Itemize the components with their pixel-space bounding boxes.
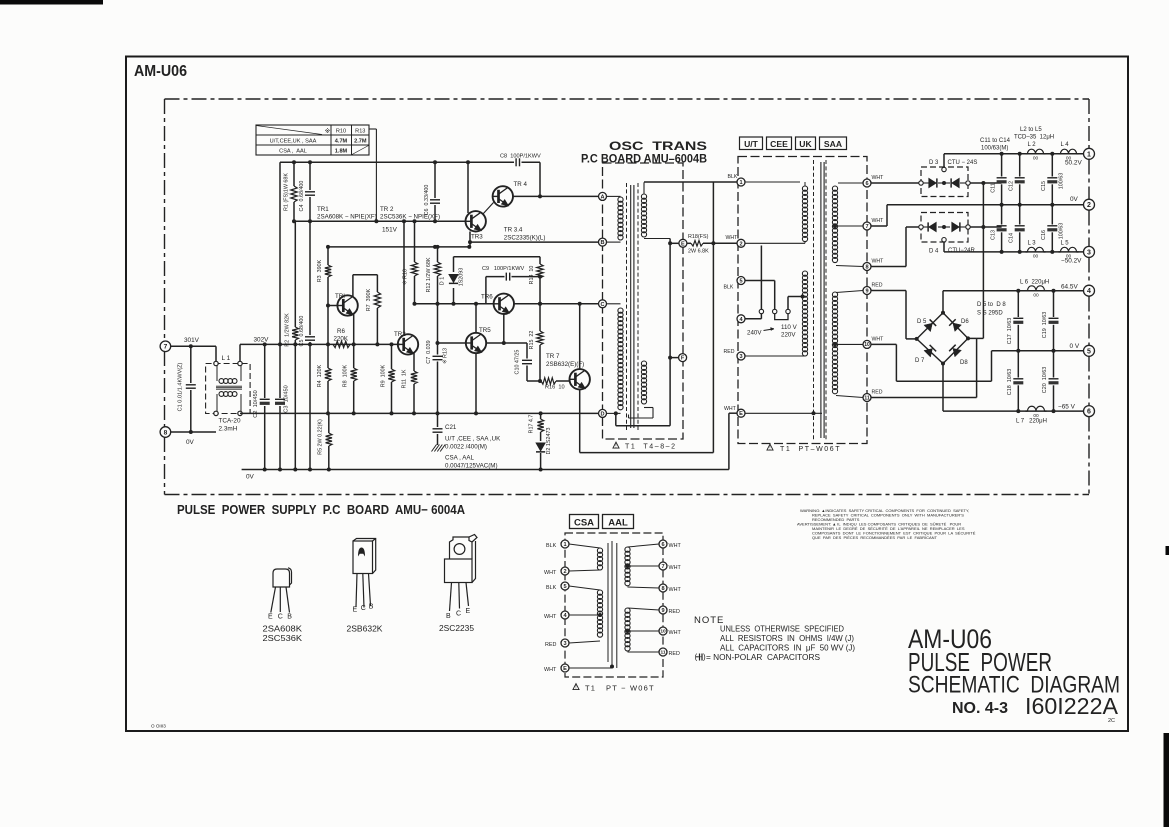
transistor package 2SC2235 TO-220 — [445, 535, 478, 612]
PT terminal 5 — [737, 277, 745, 285]
inductor L4 — [1061, 149, 1077, 154]
transistor TR5 — [466, 333, 486, 353]
svg-text:T1 PT − W06T: T1 PT − W06T — [585, 684, 655, 693]
PT secondary winding upper — [832, 186, 837, 263]
svg-text:R14 10: R14 10 — [529, 266, 535, 285]
wire terminal 9 to bridge — [871, 290, 906, 292]
svg-text:WHT: WHT — [872, 175, 885, 181]
label T1 PT-W06T bottom — [573, 684, 579, 690]
svg-text:R9 100K: R9 100K — [381, 364, 387, 387]
svg-text:WHT: WHT — [544, 570, 557, 576]
svg-text:QUE PAR DES PIÈCES RECOMMA: QUE PAR DES PIÈCES RECOMMANDÉES PAR LE F… — [812, 535, 938, 540]
variant boxes CSA AAL — [570, 515, 599, 529]
resistor R18 — [687, 242, 691, 244]
svg-text:ALL RESISTORS IN OHMS I/4W: ALL RESISTORS IN OHMS I/4W (J) — [720, 634, 854, 643]
svg-text:!: ! — [769, 445, 770, 451]
label T1 T4-8-2 — [613, 442, 619, 448]
svg-text:E: E — [353, 607, 358, 614]
capacitor C5 — [309, 221, 311, 335]
svg-text:BLK: BLK — [546, 543, 557, 549]
wire 0V rail — [242, 469, 729, 471]
svg-text:R4 120K: R4 120K — [317, 364, 323, 387]
PT terminal 10 — [863, 340, 871, 348]
svg-text:B: B — [446, 613, 451, 620]
CSA terminal 11 — [659, 648, 667, 656]
svg-text:TR 7: TR 7 — [546, 353, 560, 360]
wire terminal 11 path — [871, 397, 977, 399]
rectifier D4 CTU-24R — [921, 213, 968, 243]
svg-text:C15: C15 — [1041, 181, 1047, 191]
svg-text:D 1: D 1 — [440, 277, 446, 285]
svg-text:O OIII3: O OIII3 — [151, 724, 166, 729]
transistor TR7 — [570, 369, 590, 389]
svg-text:8: 8 — [865, 265, 868, 271]
svg-text:0V: 0V — [186, 439, 195, 446]
svg-text:UNLESS OTHERWISE SPECIFIED: UNLESS OTHERWISE SPECIFIED — [720, 625, 844, 634]
svg-text:T1 T4–8–2: T1 T4–8–2 — [625, 444, 677, 451]
svg-text:R15 22: R15 22 — [529, 331, 535, 350]
resistor R10 — [414, 221, 416, 262]
svg-text:BLK: BLK — [724, 285, 734, 291]
wire terminal 7 to 0V — [871, 225, 887, 227]
wire terminal 6 to D3 — [871, 182, 919, 184]
inner dashed board border — [165, 98, 1090, 100]
PT terminal 8 — [863, 263, 871, 271]
svg-text:5: 5 — [739, 279, 742, 285]
capacitor C18 — [1017, 351, 1019, 378]
svg-text:9: 9 — [865, 289, 868, 295]
capacitor C14 — [1019, 205, 1021, 225]
capacitor C17 — [1017, 291, 1019, 317]
svg-text:R1 (FS)1W 68K: R1 (FS)1W 68K — [284, 173, 290, 211]
PT primary winding lower — [802, 271, 807, 356]
capacitor C1 — [190, 346, 192, 383]
svg-text:7: 7 — [661, 564, 664, 570]
svg-text:TR 3.4: TR 3.4 — [504, 227, 523, 234]
output terminal 2 — [1084, 199, 1095, 210]
line filter L1 TCA-20 — [215, 346, 217, 361]
svg-text:C: C — [456, 611, 461, 618]
capacitor C21 with chassis ground — [437, 413, 439, 427]
bridge rectifier D5-D8 — [917, 313, 968, 364]
svg-text:L 2: L 2 — [1028, 142, 1037, 148]
svg-text:0V: 0V — [1070, 196, 1079, 203]
svg-text:C5 0.68/400: C5 0.68/400 — [299, 316, 305, 347]
svg-text:11: 11 — [864, 395, 870, 401]
svg-text:AAL: AAL — [608, 518, 628, 529]
svg-text:ALL CAPACITORS IN μF 50 WV: ALL CAPACITORS IN μF 50 WV (J) — [720, 644, 855, 653]
svg-text:TR6: TR6 — [481, 294, 493, 301]
svg-text:L 6 220μH: L 6 220μH — [1020, 280, 1049, 286]
svg-text:D 3: D 3 — [929, 160, 939, 166]
node B — [599, 238, 607, 246]
svg-text:220V: 220V — [781, 332, 796, 339]
svg-text:WHT: WHT — [669, 587, 682, 593]
svg-text:D 5 to D 8: D 5 to D 8 — [977, 302, 1006, 308]
svg-text:L2 to L5: L2 to L5 — [1020, 127, 1042, 133]
PT terminal 4 — [737, 315, 745, 323]
svg-text:2.3mH: 2.3mH — [219, 426, 238, 433]
svg-text:C: C — [278, 614, 283, 621]
svg-text:2: 2 — [563, 569, 566, 575]
svg-text:R7 390K: R7 390K — [366, 288, 372, 311]
svg-text:1: 1 — [739, 180, 742, 186]
svg-text:WHT: WHT — [544, 667, 557, 673]
svg-text:5: 5 — [1087, 348, 1091, 355]
inductor L6 — [1028, 286, 1045, 291]
output terminal 4 — [1084, 285, 1095, 296]
transistor TR3 — [466, 211, 486, 231]
CSA secondary winding upper — [625, 547, 630, 586]
svg-text:C20 10/63: C20 10/63 — [1042, 367, 1048, 393]
output terminal 1 — [1084, 148, 1095, 159]
svg-text:5: 5 — [563, 584, 566, 590]
capacitor C15 — [1051, 154, 1053, 177]
CSA secondary winding lower — [625, 608, 630, 651]
svg-text:U/T ,CEE , SAA ,UK: U/T ,CEE , SAA ,UK — [445, 436, 501, 443]
CSA terminal 4 — [561, 611, 569, 619]
svg-text:C: C — [361, 605, 366, 612]
svg-text:WHT: WHT — [872, 259, 885, 265]
svg-text:00: 00 — [1033, 293, 1039, 299]
svg-text:U/T,CEE,UK , SAA: U/T,CEE,UK , SAA — [270, 139, 317, 145]
diode D6 — [953, 323, 961, 331]
svg-text:R5 2W 0.22(K): R5 2W 0.22(K) — [318, 419, 324, 455]
svg-text:BLK: BLK — [728, 174, 738, 180]
osc feedback loop — [615, 413, 617, 425]
svg-text:0.0047/125VAC(M): 0.0047/125VAC(M) — [445, 463, 498, 470]
svg-text:R11 1K: R11 1K — [402, 369, 408, 388]
svg-text:I60I222A: I60I222A — [1025, 693, 1118, 719]
svg-text:−50.2V: −50.2V — [1061, 258, 1082, 265]
svg-text:301V: 301V — [184, 337, 200, 344]
svg-text:S S 295D: S S 295D — [977, 311, 1003, 317]
resistor R2 — [294, 221, 296, 327]
svg-text:1S2093: 1S2093 — [459, 268, 465, 287]
svg-text:R17 4.7: R17 4.7 — [529, 415, 535, 434]
svg-text:2SB632K: 2SB632K — [347, 625, 384, 634]
wire bias bus — [294, 220, 466, 222]
svg-text:6: 6 — [865, 181, 868, 187]
svg-text:WHT: WHT — [724, 406, 737, 412]
wire to PT terminal 1 — [644, 181, 737, 183]
svg-text:C9 100P/1KWV: C9 100P/1KWV — [482, 266, 525, 272]
transistor TR2 — [398, 334, 418, 354]
diode D7 — [924, 349, 932, 357]
inductor L7 — [1028, 406, 1045, 411]
CSA transformer dashed box — [565, 533, 663, 677]
CSA terminal 3 — [561, 639, 569, 647]
diode D5 — [924, 323, 932, 331]
svg-text:L 1: L 1 — [222, 355, 231, 362]
terminal 8 — [169, 431, 216, 433]
svg-text:2SC536K: 2SC536K — [263, 634, 303, 643]
CSA terminal 10 — [659, 627, 667, 635]
inductor L2 — [1028, 149, 1044, 154]
resistor R5 — [328, 413, 330, 433]
svg-text:R16 10: R16 10 — [545, 385, 565, 391]
wire TR2 collector — [403, 221, 405, 335]
svg-text:CSA , AAL: CSA , AAL — [445, 455, 474, 462]
voltage selector — [745, 280, 775, 282]
wire TR4 base link — [483, 203, 494, 215]
svg-text:CTU−24R: CTU−24R — [948, 248, 976, 254]
svg-text:110 V: 110 V — [781, 324, 798, 331]
node E — [679, 239, 687, 247]
CSA terminal 7 — [659, 562, 667, 570]
svg-text:2W 6.8K: 2W 6.8K — [688, 249, 709, 255]
PT terminal 9 — [863, 287, 871, 295]
CSA terminal 8 — [659, 584, 667, 592]
capacitor C8 — [515, 158, 517, 166]
svg-text:R2 1/2W 82K: R2 1/2W 82K — [285, 313, 291, 347]
svg-text:C4 0.68/400: C4 0.68/400 — [299, 181, 305, 212]
outer frame — [126, 57, 1128, 732]
svg-text:2SC536K − NPIE(XF): 2SC536K − NPIE(XF) — [380, 214, 440, 221]
svg-text:E: E — [268, 614, 273, 621]
wire TR5 collector — [475, 304, 477, 333]
svg-text:2: 2 — [1087, 202, 1091, 209]
wire TR5/TR6 emitter row — [486, 342, 527, 344]
svg-text:L 3: L 3 — [1028, 241, 1037, 247]
wire D3 output — [970, 182, 1001, 184]
svg-text:TRI: TRI — [335, 293, 345, 300]
svg-text:6: 6 — [661, 542, 664, 548]
svg-text:CSA: CSA — [574, 518, 594, 529]
wire D4 output — [970, 226, 1001, 228]
wire E to 0V rail — [729, 412, 737, 414]
svg-text:100/63(M): 100/63(M) — [981, 146, 1008, 152]
CSA terminal 2 — [561, 567, 569, 575]
svg-text:C17 10/63: C17 10/63 — [1007, 318, 1013, 344]
svg-text:C10 47/25: C10 47/25 — [515, 350, 521, 375]
svg-text:D 5: D 5 — [917, 319, 927, 325]
CSA terminal 9 — [659, 606, 667, 614]
svg-text:B: B — [369, 604, 374, 611]
capacitor C19 — [1053, 291, 1055, 317]
svg-text:E: E — [681, 241, 685, 247]
svg-text:WHT: WHT — [544, 614, 557, 620]
svg-text:6: 6 — [1087, 409, 1091, 416]
svg-text:L 5: L 5 — [1061, 241, 1070, 247]
main transformer dashed box — [738, 157, 867, 444]
wire bridge + to 64.5V rail — [942, 291, 944, 313]
output terminal 6 — [1084, 406, 1095, 417]
wire 151V bus — [328, 246, 470, 248]
osc winding lower right — [641, 361, 646, 404]
resistor R8 — [353, 344, 355, 368]
svg-text:302V: 302V — [254, 337, 270, 344]
transistor TR6 — [494, 294, 514, 314]
svg-text:2: 2 — [739, 241, 742, 247]
svg-text:TR3: TR3 — [471, 234, 483, 241]
svg-text:E: E — [739, 411, 743, 417]
svg-text:4.7M: 4.7M — [335, 139, 348, 145]
svg-text:C3 10/450: C3 10/450 — [284, 385, 290, 412]
resistor R1 — [293, 162, 295, 186]
svg-text:E: E — [466, 608, 471, 615]
wire TR3 emitter to node B — [469, 232, 471, 247]
svg-text:2SA608K − NPIE(XF): 2SA608K − NPIE(XF) — [317, 214, 377, 221]
wire TR7 emitter return — [579, 389, 581, 453]
inductor L5 — [1061, 247, 1077, 252]
svg-text:CSA , AAL: CSA , AAL — [279, 149, 307, 155]
wire node C — [415, 303, 494, 305]
svg-text:2SA608K: 2SA608K — [263, 625, 303, 634]
svg-text:TCD–35 12μH: TCD–35 12μH — [1014, 135, 1054, 141]
wire +50.2V rail — [944, 153, 1084, 155]
svg-text:50.2V: 50.2V — [1065, 160, 1082, 167]
svg-text:RED: RED — [669, 609, 680, 615]
node C — [599, 300, 607, 308]
svg-text:D: D — [600, 411, 604, 417]
resistor R9 — [391, 344, 393, 369]
wire 302V rail — [240, 343, 400, 345]
svg-text:7: 7 — [865, 224, 868, 230]
wire TR5 base — [438, 342, 467, 344]
svg-text:C7 0.039: C7 0.039 — [426, 340, 432, 363]
wire 0V mid rail — [992, 350, 1084, 352]
svg-text:240V: 240V — [747, 330, 762, 337]
voltage variant boxes U/T CEE UK SAA — [740, 137, 763, 150]
resistor R14 — [539, 257, 541, 264]
svg-text:TR 4: TR 4 — [514, 181, 528, 188]
wire terminal 8 to D4 — [871, 266, 906, 268]
wire -50.2V rail — [944, 251, 1084, 253]
resistor R16 — [527, 380, 541, 382]
resistor R3 — [327, 247, 329, 265]
page registration bar bottom-right edge — [1164, 733, 1169, 827]
node F — [679, 354, 687, 362]
svg-text:R3 390K: R3 390K — [317, 259, 323, 282]
svg-text:7: 7 — [164, 344, 168, 351]
svg-text:WHT: WHT — [669, 630, 682, 636]
svg-text:WHT: WHT — [872, 337, 885, 343]
osc transformer board dashed box — [603, 163, 684, 439]
svg-text:3: 3 — [739, 354, 742, 360]
resistor value table — [256, 125, 369, 155]
wire from table to circuit — [369, 128, 376, 130]
PT terminal 1 — [737, 178, 745, 186]
svg-text:RED: RED — [669, 651, 680, 657]
svg-text:C11 to C14: C11 to C14 — [980, 138, 1011, 144]
svg-text:E: E — [563, 666, 567, 672]
wire TR2 emitter + resistor R11 — [413, 353, 415, 372]
svg-text:C: C — [600, 302, 604, 308]
capacitor C20 — [1053, 351, 1055, 378]
PT core — [813, 160, 815, 440]
CSA terminal 6 — [659, 540, 667, 548]
osc winding A-B — [618, 197, 623, 240]
svg-text:10: 10 — [660, 629, 666, 635]
PT terminal 3 — [737, 352, 745, 360]
wire node F left — [670, 357, 679, 359]
capacitor C10 — [526, 343, 528, 359]
capacitor C11 — [1001, 154, 1003, 177]
svg-text:): ) — [703, 653, 706, 662]
svg-text:B: B — [600, 240, 604, 246]
svg-text:PULSE POWER SUPPLY P.C BOA: PULSE POWER SUPPLY P.C BOARD AMU− 6004A — [177, 503, 465, 517]
svg-text:C1 0.01/1.4KWV(Z): C1 0.01/1.4KWV(Z) — [178, 362, 184, 411]
capacitor C6 — [434, 162, 436, 198]
resistor R15 — [539, 304, 541, 331]
svg-text:2SC2335(K)(L): 2SC2335(K)(L) — [504, 235, 546, 242]
svg-text:WHT: WHT — [726, 235, 739, 241]
svg-text:100/63: 100/63 — [1059, 173, 1065, 190]
svg-text:NO. 4-3: NO. 4-3 — [952, 700, 1008, 717]
svg-text:R18(FS): R18(FS) — [688, 234, 709, 240]
osc winding upper right — [641, 194, 646, 237]
CSA terminal E — [561, 664, 569, 672]
svg-text:!: ! — [575, 685, 576, 691]
wire terminal 10 path — [871, 343, 896, 345]
wire node A — [513, 195, 599, 197]
wire TR7 collector — [579, 304, 581, 370]
svg-text:64.5V: 64.5V — [1061, 284, 1078, 291]
page registration bar top-left — [0, 0, 103, 5]
svg-text:8: 8 — [661, 586, 664, 592]
svg-text:A: A — [600, 194, 604, 200]
capacitor C16 — [1051, 205, 1053, 225]
capacitor C12 — [1019, 154, 1021, 177]
transistor TR1 — [337, 295, 357, 315]
PT terminal 7 — [863, 222, 871, 230]
svg-text:= NON-POLAR CAPACITORS: = NON-POLAR CAPACITORS — [706, 653, 821, 662]
svg-text:CEE: CEE — [770, 139, 788, 149]
PT terminal 2 — [737, 239, 745, 247]
resistor R7 — [376, 275, 378, 292]
svg-text:D8: D8 — [960, 360, 968, 366]
capacitor C3 — [279, 344, 281, 398]
diode D8 — [953, 348, 961, 356]
wire TR1 emitter — [353, 313, 355, 344]
svg-text:00: 00 — [1033, 254, 1039, 260]
svg-text:※ R10: ※ R10 — [403, 269, 409, 285]
output terminal 5 — [1084, 345, 1095, 356]
svg-text:UK: UK — [799, 139, 812, 149]
inductor L3 — [1028, 247, 1044, 252]
svg-text:3: 3 — [1087, 249, 1091, 256]
wire node B — [470, 241, 599, 243]
wire node E left — [670, 242, 679, 244]
wire bridge - to -65V rail — [942, 364, 944, 412]
CSA terminal E wire — [569, 667, 612, 669]
transistor package 2SB632K TO-126 — [353, 539, 376, 608]
transistor package 2SA608K TO-92 — [271, 568, 292, 613]
svg-text:−65 V: −65 V — [1058, 404, 1076, 411]
svg-text:8: 8 — [164, 429, 168, 436]
svg-text:C18 10/63: C18 10/63 — [1007, 369, 1013, 395]
svg-text:R8 100K: R8 100K — [343, 364, 349, 387]
wire node D line — [240, 412, 599, 414]
svg-text:2C: 2C — [1108, 718, 1115, 724]
node D — [599, 409, 607, 417]
PT terminal 11 — [863, 394, 871, 402]
svg-text:TR 2: TR 2 — [380, 206, 394, 213]
svg-text:R13: R13 — [355, 129, 365, 135]
wire top bus — [280, 161, 514, 163]
svg-text:9: 9 — [661, 608, 664, 614]
svg-text:AM-U06: AM-U06 — [134, 63, 187, 80]
page registration tick right edge — [1166, 546, 1169, 555]
svg-text:RED: RED — [872, 390, 883, 396]
svg-text:T1 PT–W06T: T1 PT–W06T — [780, 446, 841, 453]
rectifier D3 CTU-24S — [921, 167, 968, 197]
svg-text:WHT: WHT — [669, 565, 682, 571]
CSA terminal 5 — [561, 582, 569, 590]
svg-text:D2 1S2473: D2 1S2473 — [546, 428, 552, 455]
svg-text:F: F — [681, 356, 685, 362]
